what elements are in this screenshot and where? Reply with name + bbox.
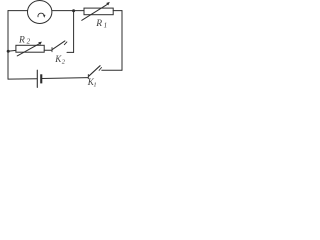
wire top-left segment xyxy=(8,10,27,12)
label K2 xyxy=(54,54,65,66)
battery cell xyxy=(37,70,42,87)
wire middle branch right xyxy=(44,49,51,51)
generator/motor circle with clockwise arrow xyxy=(28,1,52,24)
svg-text:2: 2 xyxy=(27,38,31,46)
svg-text:1: 1 xyxy=(93,82,96,89)
wire top-middle segment xyxy=(52,10,84,12)
svg-text:1: 1 xyxy=(104,22,108,30)
label R1 xyxy=(95,19,107,29)
wire right edge xyxy=(121,11,123,71)
wire vertical branch to top junction xyxy=(73,11,75,53)
svg-text:R: R xyxy=(18,35,25,45)
label R2 xyxy=(18,35,31,45)
svg-text:R: R xyxy=(95,19,102,29)
wire K2 foot segment xyxy=(67,51,74,53)
node junction dot top xyxy=(72,9,75,12)
wire top-right segment xyxy=(113,10,122,12)
switch K1 xyxy=(88,66,101,79)
rheostat R2 xyxy=(16,42,44,56)
wire left edge xyxy=(7,11,9,80)
wire middle branch left xyxy=(8,49,16,52)
wire bottom-right segment xyxy=(42,77,88,80)
wire bottom-left segment xyxy=(8,78,37,80)
wire K1 right segment xyxy=(102,69,122,71)
svg-text:2: 2 xyxy=(62,58,66,65)
switch K2 xyxy=(52,41,67,52)
rheostat R1 xyxy=(82,2,113,20)
node junction dot left xyxy=(7,50,10,53)
label K1 xyxy=(87,77,97,88)
